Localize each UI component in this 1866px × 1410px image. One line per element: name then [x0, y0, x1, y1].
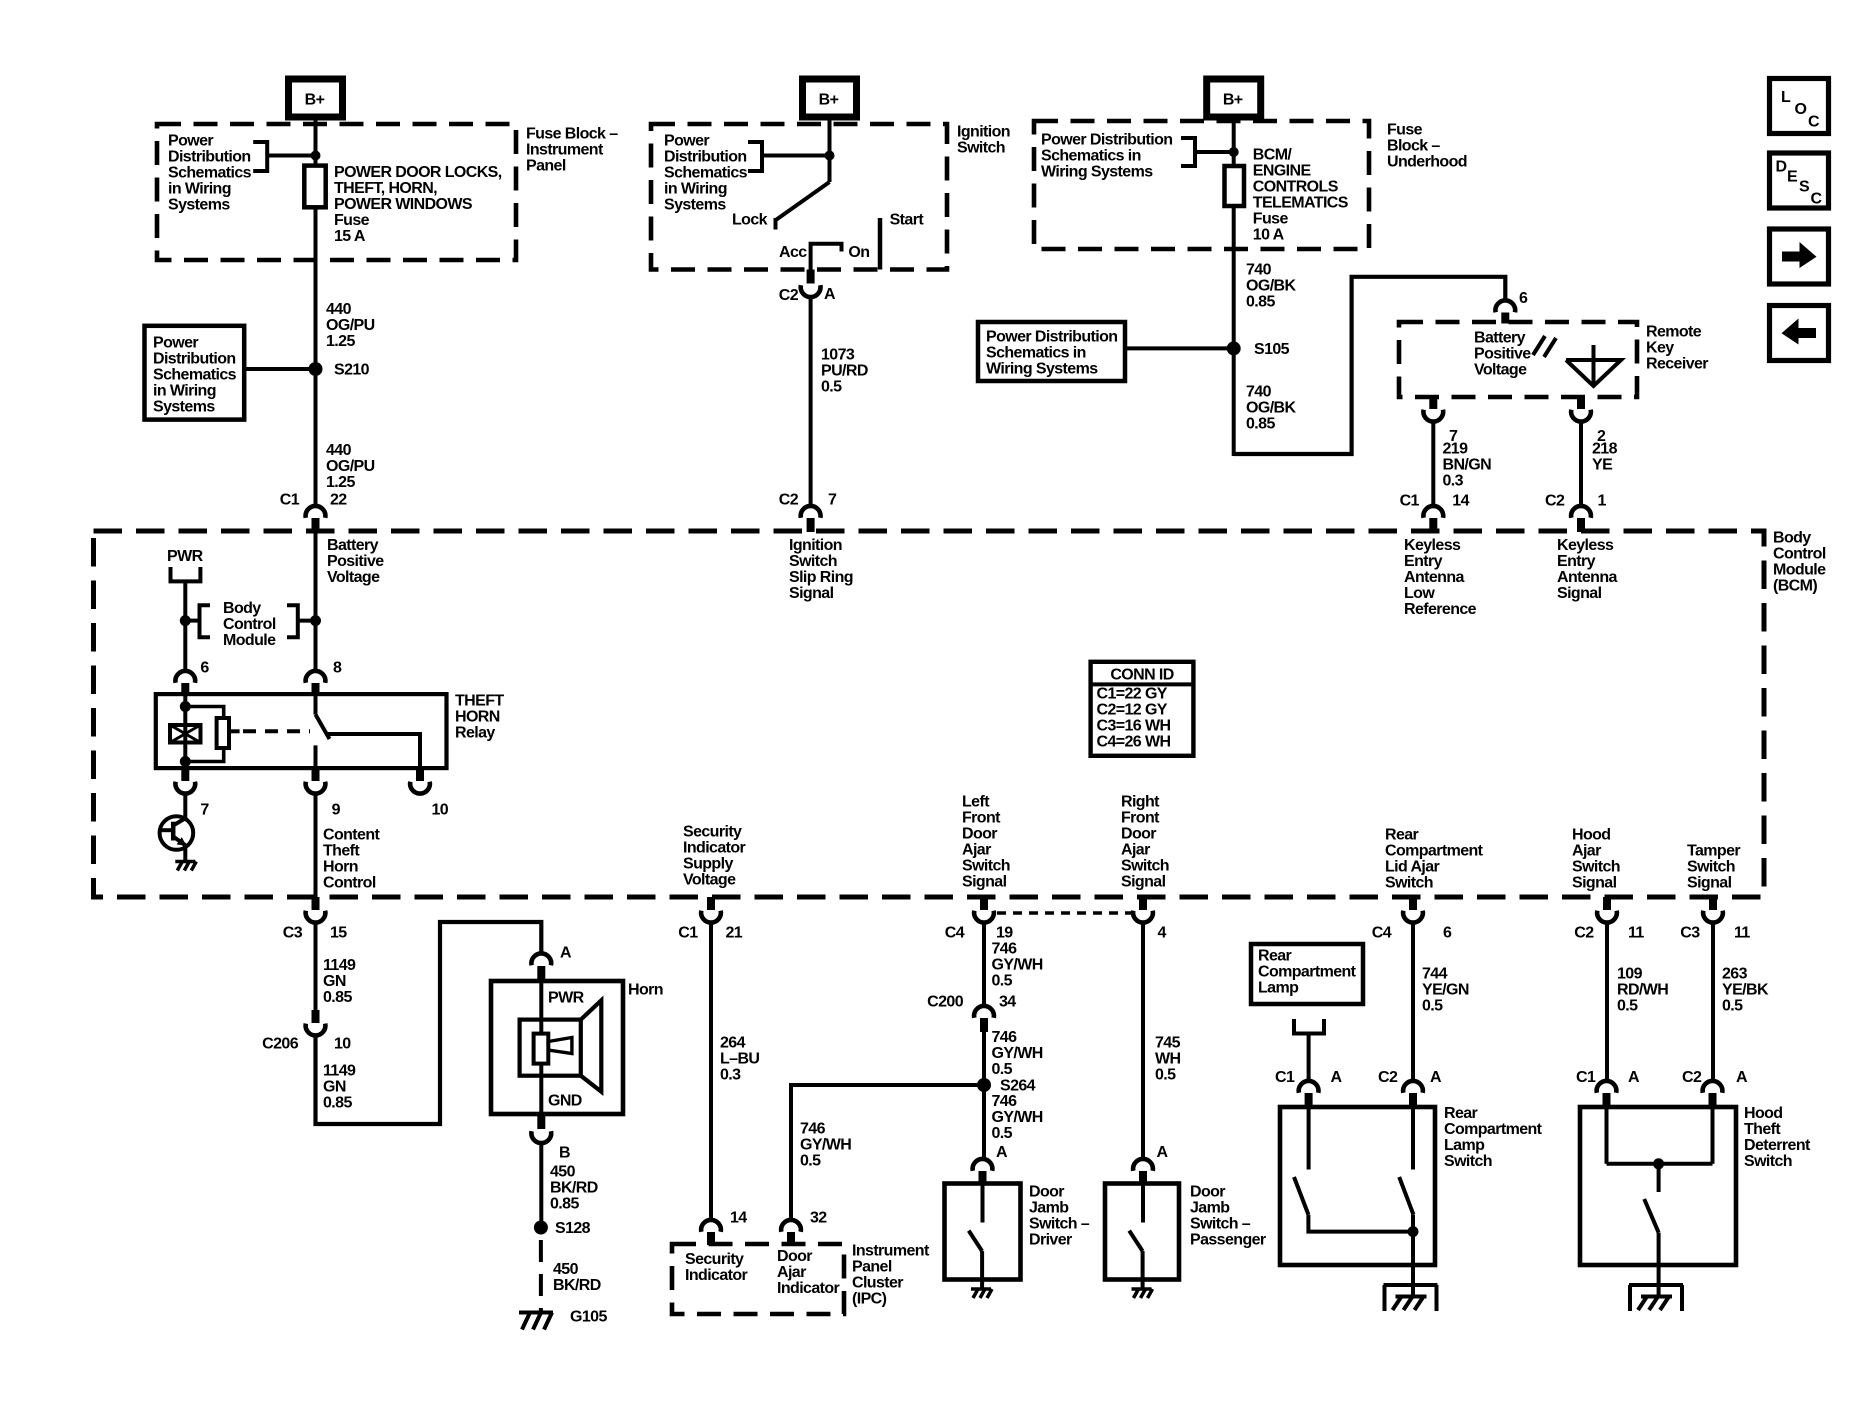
svg-text:34: 34: [999, 994, 1016, 1011]
ground below passenger jamb switch: [1132, 1289, 1153, 1298]
connector C2 pin 7 into BCM: [779, 492, 837, 533]
connector C3 pin 11 (tamper): [1680, 897, 1750, 942]
svg-text:Deterrent: Deterrent: [1744, 1137, 1811, 1154]
svg-text:C4: C4: [945, 925, 965, 942]
svg-text:744: 744: [1422, 966, 1448, 983]
rear compartment lamp switch box: [1280, 1107, 1435, 1265]
svg-text:POWER DOOR LOCKS,: POWER DOOR LOCKS,: [334, 164, 502, 181]
svg-text:8: 8: [333, 660, 342, 677]
relay switch common from pin 8: [314, 694, 318, 715]
svg-text:C2: C2: [1574, 925, 1594, 942]
svg-text:Switch: Switch: [1744, 1153, 1792, 1170]
svg-text:Door: Door: [1190, 1184, 1225, 1201]
node label Keyless Entry Antenna Signal: [1557, 537, 1618, 602]
reference note Power Distribution Schematics in Wiring Systems (fuse block IP): [168, 133, 252, 214]
svg-text:746: 746: [800, 1121, 826, 1138]
svg-text:Rear: Rear: [1444, 1105, 1478, 1122]
svg-text:Content: Content: [323, 827, 381, 844]
wire transistor emitter to ground: [183, 846, 187, 862]
svg-text:Positive: Positive: [1474, 346, 1531, 363]
wire B+ to underhood fuse block: [1232, 117, 1236, 166]
wire B+ to ignition switch: [828, 117, 832, 182]
wire fuse to C1-22: [314, 207, 318, 505]
receiver pin 2 stub and connector: [1571, 397, 1606, 445]
fuse block - instrument panel dashed box: [157, 124, 516, 260]
svg-text:TELEMATICS: TELEMATICS: [1253, 195, 1349, 212]
wire label 745 WH 0.5: [1155, 1035, 1181, 1084]
dashed link between door ajar connectors: [997, 911, 1131, 915]
svg-text:A: A: [1628, 1069, 1640, 1086]
svg-text:Power: Power: [664, 133, 709, 150]
svg-text:HORN: HORN: [455, 709, 500, 726]
svg-text:YE/GN: YE/GN: [1422, 982, 1469, 999]
svg-text:4: 4: [1158, 925, 1167, 942]
label Fuse Block - Underhood: [1387, 122, 1467, 171]
svg-text:GY/WH: GY/WH: [800, 1137, 851, 1154]
wire pin 4 to passenger door jamb: [1141, 921, 1145, 1159]
svg-text:Schematics in: Schematics in: [986, 345, 1086, 362]
svg-text:C2: C2: [779, 287, 799, 304]
horn speaker symbol: [520, 1000, 602, 1091]
svg-text:740: 740: [1246, 384, 1272, 401]
node label Keyless Entry Antenna Low Reference: [1404, 537, 1477, 618]
rear compartment lamp pigtail bracket: [1294, 1019, 1324, 1034]
svg-text:Module: Module: [1773, 562, 1826, 579]
svg-text:WH: WH: [1155, 1051, 1181, 1068]
svg-text:0.5: 0.5: [1617, 998, 1638, 1015]
svg-text:O: O: [1795, 101, 1807, 118]
junction dot at fuse feed: [311, 151, 321, 161]
svg-text:6: 6: [200, 660, 209, 677]
wire C3-15 to C206: [314, 922, 318, 1011]
svg-text:Front: Front: [1121, 810, 1160, 827]
reference bracket (fuse block IP): [253, 142, 267, 171]
svg-text:Switch: Switch: [1687, 859, 1735, 876]
svg-text:Front: Front: [962, 810, 1001, 827]
svg-text:GY/WH: GY/WH: [992, 957, 1043, 974]
instrument panel cluster dashed box: [672, 1244, 844, 1314]
svg-text:Switch: Switch: [1444, 1153, 1492, 1170]
svg-text:Theft: Theft: [323, 843, 360, 860]
connector C2 pin A into lamp switch: [1378, 1069, 1442, 1108]
reference note Power Distribution Schematics (underhood): [1041, 132, 1172, 181]
wire label 218 YE: [1592, 441, 1618, 474]
svg-text:Distribution: Distribution: [153, 351, 236, 368]
svg-text:PWR: PWR: [167, 548, 204, 565]
svg-text:Ignition: Ignition: [789, 537, 842, 554]
wire label 746 GY/WH 0.5 (door ajar indicator): [800, 1121, 851, 1170]
svg-text:Entry: Entry: [1404, 553, 1443, 570]
reference note Power Distribution Schematics (ignition): [664, 133, 748, 214]
svg-text:Receiver: Receiver: [1646, 356, 1708, 373]
svg-text:15: 15: [330, 925, 347, 942]
node label Tamper Switch Signal: [1687, 843, 1740, 892]
svg-text:YE/BK: YE/BK: [1722, 982, 1769, 999]
hood theft deterrent switch box: [1580, 1107, 1736, 1265]
wire label 1149 GN 0.85 (upper): [323, 957, 356, 1006]
node label Right Front Door Ajar Switch Signal: [1121, 794, 1169, 891]
svg-text:THEFT, HORN,: THEFT, HORN,: [334, 180, 437, 197]
svg-text:E: E: [1787, 169, 1798, 186]
svg-text:A: A: [1430, 1069, 1442, 1086]
svg-text:Supply: Supply: [683, 856, 733, 873]
svg-text:Switch: Switch: [1121, 858, 1169, 875]
svg-text:B+: B+: [305, 92, 325, 109]
svg-text:10: 10: [432, 802, 449, 819]
wire BCM pin22 internal down to junction: [314, 532, 318, 672]
label Door Jamb Switch - Driver: [1029, 1184, 1090, 1249]
svg-text:14: 14: [730, 1210, 747, 1227]
svg-text:B: B: [559, 1145, 570, 1162]
svg-text:YE: YE: [1592, 457, 1613, 474]
svg-text:A: A: [1157, 1144, 1169, 1161]
svg-text:GY/WH: GY/WH: [992, 1109, 1043, 1126]
svg-text:Fuse Block –: Fuse Block –: [526, 126, 618, 143]
svg-text:GN: GN: [323, 973, 346, 990]
connector C2 pin A into hood switch: [1682, 1069, 1748, 1108]
svg-text:Ajar: Ajar: [1121, 842, 1150, 859]
svg-text:Lock: Lock: [732, 212, 768, 229]
svg-text:Keyless: Keyless: [1557, 537, 1614, 554]
door jamb switch - passenger box: [1105, 1184, 1179, 1280]
svg-text:264: 264: [720, 1035, 746, 1052]
horn assembly box: [491, 981, 623, 1114]
svg-text:0.5: 0.5: [1155, 1067, 1176, 1084]
connector C1 pin A into hood switch: [1576, 1069, 1640, 1108]
svg-text:S128: S128: [555, 1220, 591, 1237]
svg-text:Relay: Relay: [455, 725, 495, 742]
wire label 740 OG/BK 0.85 (lower): [1246, 384, 1296, 433]
svg-text:14: 14: [1452, 493, 1469, 510]
svg-text:(BCM): (BCM): [1773, 578, 1817, 595]
reference box Power Distribution Schematics (S210): [145, 326, 245, 420]
connector C1 pin A into lamp switch: [1275, 1069, 1343, 1108]
fuse F2 BCM/ENGINE CONTROLS TELEMATICS 10A: [1225, 166, 1245, 206]
svg-text:S210: S210: [334, 362, 370, 379]
svg-text:Battery: Battery: [1474, 330, 1526, 347]
relay switch output wire to pin 10: [328, 734, 421, 768]
wire C1-21 to IPC pin 14: [709, 921, 713, 1219]
svg-text:745: 745: [1155, 1035, 1181, 1052]
svg-text:BK/RD: BK/RD: [553, 1277, 601, 1294]
nav button DESC: [1770, 153, 1829, 208]
svg-text:746: 746: [992, 1093, 1018, 1110]
svg-text:A: A: [824, 286, 836, 303]
relay coil (box with X): [170, 725, 201, 743]
svg-text:Switch: Switch: [957, 140, 1005, 157]
wire into horn speaker: [539, 981, 543, 1034]
wire label 440 OG/PU 1.25 (lower): [326, 442, 375, 491]
svg-text:Door: Door: [1121, 826, 1156, 843]
svg-text:Panel: Panel: [852, 1259, 892, 1276]
svg-text:Distribution: Distribution: [168, 149, 251, 166]
power symbol B+ (fuse block - instrument panel feed): [289, 79, 343, 117]
svg-text:15 A: 15 A: [334, 228, 366, 245]
connector C2 pin 11 (hood ajar): [1574, 897, 1644, 942]
wire label 264 L-BU 0.3: [720, 1035, 759, 1084]
svg-text:On: On: [848, 244, 869, 261]
reference bracket (ignition): [748, 142, 762, 171]
svg-text:Schematics: Schematics: [664, 165, 748, 182]
wire horn pin B to S128: [539, 1143, 543, 1222]
connector C3 pin 15 (horn control out): [283, 897, 348, 942]
reference box Power Distribution Schematics (S105): [978, 322, 1125, 381]
CONN ID table: [1091, 662, 1194, 756]
wire C200 to S264: [982, 1032, 986, 1085]
svg-text:10: 10: [334, 1036, 351, 1053]
svg-text:Indicator: Indicator: [683, 840, 746, 857]
ignition Acc contact: [811, 244, 842, 270]
svg-text:B+: B+: [819, 92, 839, 109]
svg-text:Signal: Signal: [1557, 585, 1602, 602]
svg-text:RD/WH: RD/WH: [1617, 982, 1668, 999]
svg-text:Signal: Signal: [1687, 875, 1732, 892]
svg-text:C3: C3: [1680, 925, 1700, 942]
svg-text:Acc: Acc: [779, 244, 807, 261]
boxed ground below hood switch: [1629, 1285, 1683, 1311]
svg-text:1149: 1149: [323, 957, 356, 974]
node label Left Front Door Ajar Switch Signal: [962, 794, 1010, 891]
wire label 219 BN/GN 0.3: [1443, 441, 1492, 490]
svg-text:Door: Door: [962, 826, 997, 843]
wire S264 to door jamb driver pin A: [982, 1085, 986, 1159]
svg-text:PU/RD: PU/RD: [821, 363, 868, 380]
svg-text:THEFT: THEFT: [455, 693, 504, 710]
relay pin 7 connector: [175, 768, 209, 819]
nav button LOC: [1770, 79, 1829, 134]
wire label 450 BK/RD (below S128): [553, 1261, 601, 1294]
connector pin A at passenger door jamb switch: [1133, 1144, 1168, 1184]
wire receiver pin 7 to C1-14: [1431, 420, 1435, 504]
relay mechanical linkage dashed: [229, 729, 240, 733]
connector C2 pin A below ignition switch: [779, 270, 821, 305]
svg-text:Remote: Remote: [1646, 324, 1702, 341]
wire relay pin 7 to transistor Q1: [183, 793, 187, 818]
lamp switch left contact and blade: [1294, 1107, 1413, 1232]
label THEFT HORN Relay: [455, 693, 504, 742]
svg-text:Power: Power: [168, 133, 213, 150]
svg-text:PWR: PWR: [548, 990, 585, 1007]
svg-text:Driver: Driver: [1029, 1232, 1072, 1249]
svg-text:Fuse: Fuse: [1253, 211, 1289, 228]
ignition switch blade to Lock: [777, 182, 830, 220]
svg-text:OG/BK: OG/BK: [1246, 278, 1296, 295]
svg-text:0.85: 0.85: [323, 989, 352, 1006]
wire reference box to S210: [244, 367, 315, 371]
connector pin 6 into remote key receiver: [1495, 290, 1528, 324]
relay pin 6 connector: [175, 660, 209, 697]
power symbol B+ (fuse block - underhood feed): [1207, 79, 1261, 117]
svg-text:450: 450: [550, 1164, 576, 1181]
fuse block - underhood dashed box: [1034, 121, 1369, 249]
svg-text:Antenna: Antenna: [1404, 569, 1465, 586]
wire S105 routed to remote key receiver pin 6: [1234, 277, 1506, 454]
svg-text:6: 6: [1519, 290, 1528, 307]
power symbol PWR inside BCM: [167, 548, 204, 581]
svg-text:S264: S264: [1000, 1078, 1036, 1095]
svg-text:263: 263: [1722, 966, 1748, 983]
svg-text:218: 218: [1592, 441, 1618, 458]
hood switch contacts joined: [1607, 1107, 1713, 1164]
svg-text:450: 450: [553, 1261, 579, 1278]
svg-text:C4: C4: [1372, 925, 1392, 942]
wire label 740 OG/BK 0.85 (upper): [1246, 262, 1296, 311]
svg-text:Antenna: Antenna: [1557, 569, 1618, 586]
wire S264 branch to IPC pin 32: [791, 1085, 984, 1219]
wire label 440 OG/PU 1.25 (upper): [326, 301, 375, 350]
svg-text:Systems: Systems: [153, 399, 215, 416]
connector pin A at horn: [531, 945, 572, 982]
transistor Q1 horn driver: [160, 816, 194, 850]
svg-text:Passenger: Passenger: [1190, 1232, 1266, 1249]
svg-text:0.5: 0.5: [1722, 998, 1743, 1015]
svg-text:Fuse: Fuse: [334, 212, 370, 229]
svg-text:Control: Control: [1773, 546, 1826, 563]
svg-text:1.25: 1.25: [326, 474, 355, 491]
label Instrument Panel Cluster (IPC): [852, 1243, 930, 1308]
label Hood Theft Deterrent Switch: [1744, 1105, 1811, 1170]
wire receiver pin 2 to C2-1: [1579, 420, 1583, 504]
relay pin 9 connector: [306, 768, 341, 819]
wire relay pin 9 to BCM edge: [314, 793, 318, 898]
svg-text:1073: 1073: [821, 347, 855, 364]
svg-text:Indicator: Indicator: [685, 1267, 748, 1284]
connector pin 14 into IPC: [701, 1210, 747, 1246]
theft horn relay box: [156, 694, 447, 768]
svg-text:Compartment: Compartment: [1258, 964, 1357, 981]
connector C1 pin 14 into BCM: [1400, 493, 1470, 533]
svg-text:11: 11: [1734, 925, 1750, 942]
svg-text:0.5: 0.5: [821, 379, 842, 396]
wire label 744 YE/GN 0.5: [1422, 966, 1469, 1015]
label Fuse Block - Instrument Panel: [526, 126, 618, 175]
svg-text:Ajar: Ajar: [1572, 843, 1601, 860]
wire C4-19 to C200: [982, 921, 986, 1005]
svg-text:Compartment: Compartment: [1385, 843, 1484, 860]
svg-text:Jamb: Jamb: [1029, 1200, 1069, 1217]
junction dot ignition feed: [825, 151, 835, 161]
value label fuse 1: [334, 164, 502, 245]
svg-text:Switch –: Switch –: [1190, 1216, 1251, 1233]
svg-text:Theft: Theft: [1744, 1121, 1781, 1138]
svg-text:9: 9: [332, 802, 341, 819]
wire fuse 2 down to S105 corner: [1232, 206, 1236, 456]
label Body Control Module (BCM): [1773, 530, 1826, 595]
label Ignition Switch: [957, 124, 1010, 157]
power symbol B+ (ignition switch feed): [803, 79, 857, 117]
svg-text:32: 32: [810, 1210, 827, 1227]
svg-text:Underhood: Underhood: [1387, 154, 1467, 171]
ground below driver jamb switch: [971, 1289, 992, 1298]
lamp switch right contact and blade: [1399, 1107, 1413, 1265]
wire label 263 YE/BK 0.5: [1722, 966, 1769, 1015]
junction dot in hood switch: [1653, 1158, 1664, 1169]
svg-text:Instrument: Instrument: [526, 142, 604, 159]
splice S264: [977, 1078, 991, 1092]
node label Security Indicator Supply Voltage: [683, 824, 746, 889]
svg-text:Entry: Entry: [1557, 553, 1596, 570]
svg-text:Instrument: Instrument: [852, 1243, 930, 1260]
svg-text:ENGINE: ENGINE: [1253, 163, 1312, 180]
relay pin 8 connector: [306, 660, 342, 697]
svg-text:Positive: Positive: [327, 553, 384, 570]
indicator label Security Indicator: [685, 1251, 748, 1284]
svg-text:Door: Door: [1029, 1184, 1064, 1201]
svg-text:A: A: [996, 1144, 1008, 1161]
svg-text:7: 7: [200, 802, 209, 819]
svg-text:Schematics: Schematics: [153, 367, 237, 384]
svg-text:Panel: Panel: [526, 158, 566, 175]
svg-text:BCM/: BCM/: [1253, 147, 1293, 164]
wire label 746 GY/WH 0.5 (middle): [992, 1029, 1043, 1078]
in-line connector C200 pin 34: [927, 994, 1016, 1033]
svg-text:in Wiring: in Wiring: [153, 383, 216, 400]
connector C4 pin 6 (rear lid ajar): [1372, 897, 1452, 942]
svg-text:Ajar: Ajar: [962, 842, 991, 859]
svg-text:1149: 1149: [323, 1063, 356, 1080]
wire label 450 BK/RD 0.85: [550, 1164, 598, 1213]
svg-text:C2: C2: [1378, 1069, 1398, 1086]
wire lamp switch to ground: [1411, 1265, 1415, 1297]
svg-text:0.3: 0.3: [1443, 473, 1464, 490]
svg-text:G105: G105: [570, 1309, 607, 1326]
svg-text:Horn: Horn: [628, 982, 663, 999]
svg-text:Battery: Battery: [327, 537, 379, 554]
wire label 109 RD/WH 0.5: [1617, 966, 1668, 1015]
svg-text:Lid Ajar: Lid Ajar: [1385, 859, 1440, 876]
svg-text:C1: C1: [1275, 1069, 1295, 1086]
driver jamb switch contact and blade: [969, 1184, 983, 1288]
svg-text:19: 19: [996, 925, 1013, 942]
relay switch lower contact to pin 9: [314, 745, 318, 768]
connector pin B below horn: [531, 1114, 570, 1162]
antenna symbol in remote key receiver: [1533, 336, 1621, 386]
receiver pin 7 stub and connector: [1423, 397, 1458, 445]
remote key receiver dashed box: [1399, 322, 1637, 397]
svg-text:Signal: Signal: [1121, 874, 1166, 891]
svg-text:Voltage: Voltage: [1474, 362, 1527, 379]
svg-text:0.5: 0.5: [992, 973, 1013, 990]
wire C2-11 to hood switch C1-A: [1605, 921, 1609, 1080]
svg-text:BN/GN: BN/GN: [1443, 457, 1492, 474]
svg-text:Horn: Horn: [323, 859, 358, 876]
svg-text:Door: Door: [777, 1248, 812, 1265]
svg-text:Hood: Hood: [1572, 827, 1610, 844]
dashed wire S128 to G105: [539, 1240, 543, 1311]
svg-text:0.5: 0.5: [800, 1153, 821, 1170]
svg-text:Wiring Systems: Wiring Systems: [986, 361, 1098, 378]
relay coil junction dot top: [180, 701, 191, 712]
svg-text:Switch: Switch: [1385, 875, 1433, 892]
svg-text:Signal: Signal: [789, 585, 834, 602]
node label Hood Ajar Switch Signal: [1572, 827, 1620, 892]
svg-text:Reference: Reference: [1404, 601, 1477, 618]
svg-text:Wiring Systems: Wiring Systems: [1041, 164, 1153, 181]
connector pin A at driver door jamb switch: [973, 1144, 1008, 1184]
svg-text:Fuse: Fuse: [1387, 122, 1423, 139]
door jamb switch - driver box: [945, 1184, 1021, 1280]
svg-text:C: C: [1808, 114, 1820, 131]
svg-text:0.85: 0.85: [323, 1095, 352, 1112]
svg-text:Block –: Block –: [1387, 138, 1440, 155]
svg-text:Jamb: Jamb: [1190, 1200, 1230, 1217]
svg-text:0.5: 0.5: [1422, 998, 1443, 1015]
fuse F1 POWER DOOR LOCKS 15A: [304, 166, 325, 208]
svg-text:C2: C2: [1682, 1069, 1702, 1086]
svg-text:740: 740: [1246, 262, 1272, 279]
label Rear Compartment Lamp Switch: [1444, 1105, 1543, 1170]
node label Battery Positive Voltage (BCM pin 22): [327, 537, 384, 586]
